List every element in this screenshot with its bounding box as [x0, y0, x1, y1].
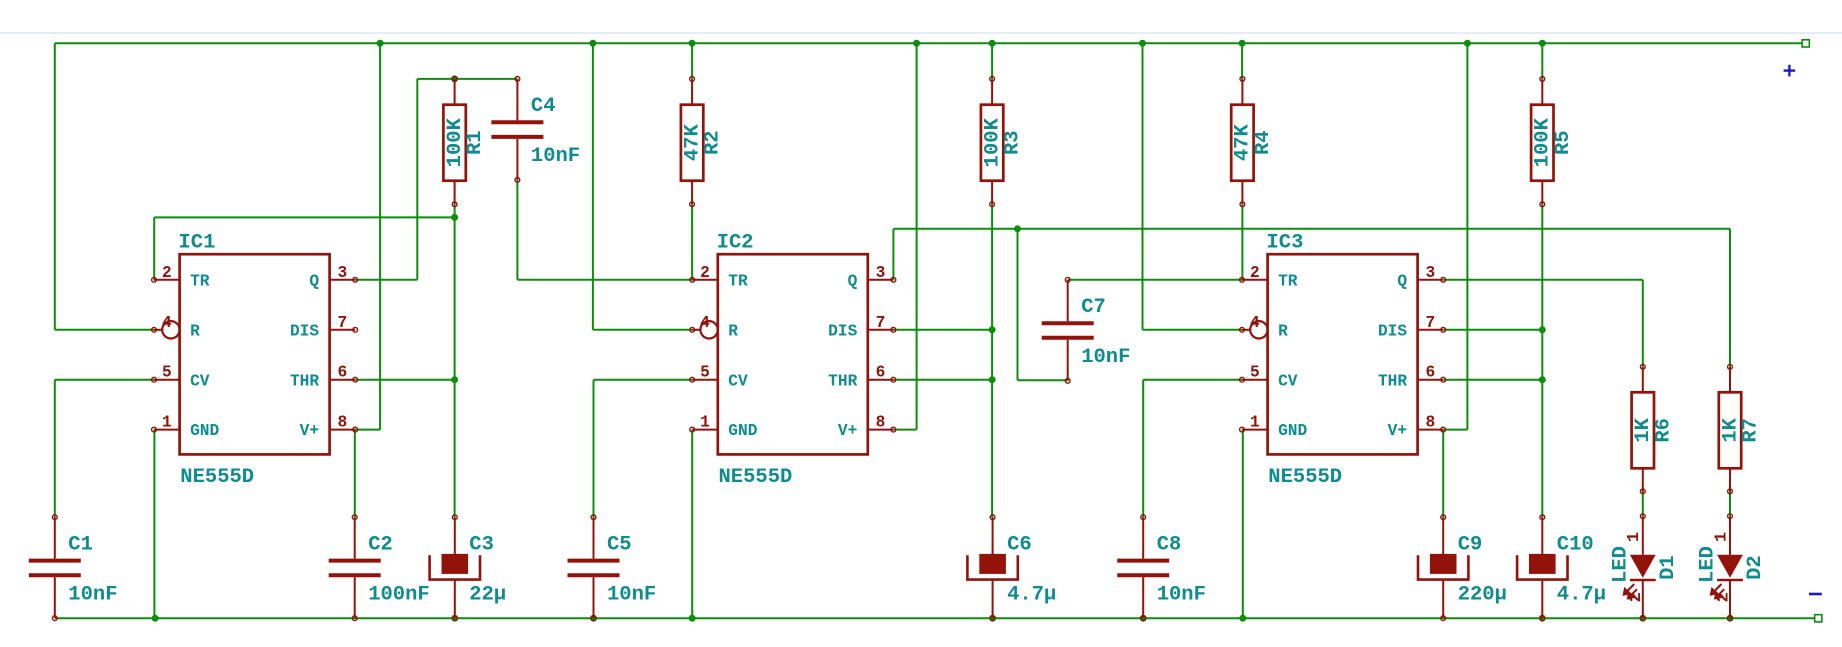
svg-text:3: 3 — [1425, 264, 1435, 282]
svg-text:GND: GND — [1278, 422, 1307, 440]
wire Q2 line down to R7 — [1729, 229, 1731, 367]
svg-text:C5: C5 — [607, 533, 632, 556]
svg-text:1: 1 — [1250, 414, 1260, 432]
capacitor C4 — [491, 79, 543, 180]
svg-text:2: 2 — [700, 264, 710, 282]
junction TR1 net — [451, 214, 458, 221]
svg-text:TR: TR — [728, 272, 748, 290]
junction GND bus / IC2 GND — [689, 615, 696, 622]
svg-text:8: 8 — [1425, 414, 1435, 432]
wire R2 bottom to IC2 TR — [691, 204, 693, 279]
junction DIS3 net — [1539, 326, 1546, 333]
svg-text:R2: R2 — [702, 130, 725, 155]
svg-text:IC3: IC3 — [1267, 232, 1304, 255]
svg-text:R1: R1 — [464, 130, 487, 155]
resistor R1 — [443, 79, 465, 204]
wire IC1 CV pin horizontal — [55, 379, 154, 381]
svg-text:Q: Q — [848, 272, 858, 290]
power label + — [1784, 65, 1796, 77]
capacitor C3 (electrolytic) — [430, 517, 480, 618]
svg-text:5: 5 — [162, 364, 172, 382]
svg-text:DIS: DIS — [1378, 322, 1407, 340]
wire IC2 CV to C5 vertical — [593, 380, 595, 518]
svg-text:6: 6 — [337, 364, 347, 382]
svg-text:100nF: 100nF — [368, 583, 430, 606]
wire V+ bus to IC2 R pullup vertical — [592, 43, 594, 330]
wire IC2 Q long horizontal to R7 — [893, 228, 1730, 230]
svg-text:7: 7 — [337, 314, 347, 332]
svg-text:DIS: DIS — [828, 322, 857, 340]
node GND bus end square — [1815, 615, 1822, 622]
faint page border line — [0, 32, 1842, 34]
wire IC2 DIS to R3 — [893, 329, 992, 331]
svg-text:10nF: 10nF — [531, 145, 580, 168]
junction V+ bus / IC1 V+ — [377, 40, 384, 47]
junction THR1 net — [451, 376, 458, 383]
junction GND bus / IC1 GND — [152, 615, 159, 622]
wire IC1 Q right — [355, 279, 417, 281]
wire IC1 R pin horizontal — [55, 329, 154, 331]
resistor R7 — [1719, 367, 1741, 492]
svg-text:GND: GND — [190, 422, 219, 440]
svg-text:D1: D1 — [1657, 555, 1680, 580]
junction V+ bus / IC2 R pullup — [589, 40, 596, 47]
junction V+ bus / R4 — [1239, 40, 1246, 47]
svg-text:10nF: 10nF — [1081, 346, 1130, 369]
svg-text:10nF: 10nF — [607, 583, 656, 606]
svg-text:4: 4 — [1250, 314, 1260, 332]
svg-text:TR: TR — [1278, 272, 1298, 290]
wire V+ bus to IC1 R pullup vertical — [54, 43, 56, 330]
junction GND bus / C8 — [1140, 615, 1147, 622]
resistor R5 — [1531, 79, 1553, 204]
wire R5 bottom to C10 vertical — [1541, 204, 1543, 517]
svg-text:C9: C9 — [1458, 533, 1483, 556]
resistor R2 — [681, 79, 703, 204]
svg-text:DIS: DIS — [290, 322, 319, 340]
junction V+ bus / IC2 V+ — [913, 40, 920, 47]
svg-text:NE555D: NE555D — [719, 466, 793, 489]
svg-text:C7: C7 — [1081, 296, 1106, 319]
svg-text:R6: R6 — [1652, 418, 1675, 443]
wire IC1 GND to bus vertical — [153, 430, 155, 619]
capacitor C10 (electrolytic) — [1517, 517, 1567, 618]
svg-text:NE555D: NE555D — [1268, 466, 1342, 489]
svg-text:R3: R3 — [1002, 130, 1025, 155]
junction GND bus / C6 — [989, 615, 996, 622]
junction V+ bus / R5 — [1539, 40, 1546, 47]
svg-text:C1: C1 — [68, 533, 93, 556]
wire IC2 THR to R3 — [893, 379, 992, 381]
wire IC1 THR to R1 node — [355, 379, 454, 381]
pin end markers (open circles) — [52, 77, 1732, 621]
wire bus to R3 top — [991, 43, 993, 79]
svg-text:C3: C3 — [469, 533, 494, 556]
junction DIS2 net — [989, 326, 996, 333]
resistor R4 — [1231, 79, 1253, 204]
svg-text:1: 1 — [162, 414, 172, 432]
LED D2 — [1711, 516, 1743, 618]
wire R7 to D2 link — [1729, 491, 1731, 516]
svg-text:THR: THR — [1378, 372, 1407, 390]
svg-text:Q: Q — [309, 272, 319, 290]
svg-text:IC2: IC2 — [717, 232, 754, 255]
svg-text:Q: Q — [1397, 272, 1407, 290]
wire R4 bottom to IC3 TR — [1241, 204, 1243, 279]
svg-text:10nF: 10nF — [1157, 583, 1206, 606]
wire to C7 bottom horizontal — [1018, 379, 1068, 381]
junction V+ bus / IC3 V+ — [1464, 40, 1471, 47]
svg-text:4.7µ: 4.7µ — [1007, 583, 1056, 606]
wire Q2 node to C7 vertical — [1017, 229, 1019, 380]
wire GND bottom bus — [55, 617, 1815, 619]
wire IC1 Q up — [416, 79, 418, 280]
svg-text:C10: C10 — [1557, 533, 1594, 556]
wire IC1 TR vertical — [153, 217, 155, 279]
junction THR3 net — [1539, 376, 1546, 383]
wire bus to R5 top — [1541, 43, 1543, 79]
wire IC2 V+ vertical to bus — [916, 43, 918, 429]
wire IC3 GND to bus vertical — [1242, 430, 1244, 619]
junction Q2 net to C7 — [1014, 225, 1021, 232]
svg-text:R: R — [728, 322, 738, 340]
svg-text:2: 2 — [1714, 592, 1733, 602]
power label - — [1809, 593, 1822, 596]
junction V+ bus / IC3 R pullup — [1139, 40, 1146, 47]
svg-text:R5: R5 — [1552, 130, 1575, 155]
wire IC3 CV pin horizontal — [1143, 379, 1242, 381]
svg-text:6: 6 — [1425, 364, 1435, 382]
svg-text:D2: D2 — [1744, 555, 1767, 580]
LED D1 — [1624, 516, 1656, 618]
svg-text:C4: C4 — [531, 95, 556, 118]
capacitor C5 — [568, 517, 620, 618]
wire IC2 R pin horizontal — [593, 329, 692, 331]
svg-text:4.7µ: 4.7µ — [1557, 583, 1606, 606]
junction GND bus / D1 — [1639, 615, 1646, 622]
junction GND bus / C3 — [451, 615, 458, 622]
wire IC1 V+ to C2 vertical — [354, 430, 356, 518]
capacitor C9 (electrolytic) — [1418, 517, 1468, 618]
svg-text:NE555D: NE555D — [180, 466, 254, 489]
wire bus to R4 top — [1241, 43, 1243, 79]
junction V+ bus / R2 — [689, 40, 696, 47]
wire IC3 V+ to C9 vertical — [1442, 430, 1444, 518]
capacitor C8 — [1117, 517, 1169, 618]
svg-text:C8: C8 — [1157, 533, 1182, 556]
svg-text:1: 1 — [1712, 532, 1731, 542]
svg-text:2: 2 — [1250, 264, 1260, 282]
svg-text:3: 3 — [876, 264, 886, 282]
svg-text:8: 8 — [876, 414, 886, 432]
svg-text:TR: TR — [190, 272, 210, 290]
wire V+ bus to IC3 R pullup vertical — [1142, 43, 1144, 330]
svg-text:6: 6 — [876, 364, 886, 382]
wire IC2 Q up — [892, 229, 894, 280]
svg-text:GND: GND — [728, 422, 757, 440]
svg-text:8: 8 — [337, 414, 347, 432]
wire IC3 THR to R5 — [1443, 379, 1542, 381]
junction V+ bus / R3 — [989, 40, 996, 47]
wire C4 bottom vertical — [516, 180, 518, 280]
svg-text:V+: V+ — [838, 422, 857, 440]
svg-text:7: 7 — [1425, 314, 1435, 332]
wire C7 top to IC3 TR horizontal — [1068, 279, 1242, 281]
wire V+ top bus — [55, 42, 1802, 44]
svg-text:R4: R4 — [1252, 130, 1275, 155]
capacitor C1 — [29, 517, 81, 618]
svg-text:4: 4 — [700, 314, 710, 332]
svg-text:R7: R7 — [1740, 418, 1763, 443]
wire IC3 DIS to R5 — [1443, 329, 1542, 331]
resistor R3 — [981, 79, 1003, 204]
capacitor C6 (electrolytic) — [967, 517, 1017, 618]
svg-text:3: 3 — [337, 264, 347, 282]
svg-text:4: 4 — [162, 314, 172, 332]
svg-text:THR: THR — [828, 372, 857, 390]
op-amp-style timer IC IC1 NE555D — [154, 254, 355, 454]
wire IC1 TR horizontal to R1 node — [154, 216, 454, 218]
wire IC2 V+ stub — [893, 429, 916, 431]
svg-text:C2: C2 — [368, 533, 393, 556]
wire IC1 CV to C1 vertical — [54, 380, 56, 518]
svg-text:2: 2 — [162, 264, 172, 282]
svg-text:C6: C6 — [1007, 533, 1032, 556]
svg-text:LED: LED — [1610, 546, 1633, 583]
svg-text:1: 1 — [1625, 532, 1644, 542]
svg-text:5: 5 — [700, 364, 710, 382]
junction GND bus / D2 — [1727, 615, 1734, 622]
capacitor C7 — [1042, 280, 1094, 381]
wire IC1 V+ vertical to bus — [379, 43, 381, 429]
junction GND bus / C10 — [1539, 615, 1546, 622]
wire IC3 CV to C8 vertical — [1142, 380, 1144, 518]
wire IC2 CV pin horizontal — [594, 379, 693, 381]
wire R1 bottom to C3 vertical — [454, 204, 456, 517]
svg-text:R: R — [1278, 322, 1288, 340]
wire IC2 GND to bus vertical — [691, 430, 693, 619]
svg-text:V+: V+ — [300, 422, 319, 440]
svg-text:R: R — [190, 322, 200, 340]
wire IC1 Q top horizontal to C4 — [417, 78, 517, 80]
node V+ bus end square — [1802, 40, 1809, 47]
svg-text:IC1: IC1 — [179, 232, 216, 255]
svg-text:220µ: 220µ — [1458, 583, 1507, 606]
resistor R6 — [1632, 367, 1654, 492]
svg-text:LED: LED — [1697, 546, 1720, 583]
wire IC3 V+ vertical to bus — [1466, 43, 1468, 429]
svg-text:10nF: 10nF — [68, 583, 117, 606]
op-amp-style timer IC IC3 NE555D — [1242, 254, 1443, 454]
wire bus to R2 top — [691, 43, 693, 79]
wire IC1 V+ stub — [355, 429, 380, 431]
junction GND bus / IC3 GND — [1239, 615, 1246, 622]
wire R6 to D1 link — [1642, 491, 1644, 516]
junction THR2 net — [989, 376, 996, 383]
junction GND bus / C5 — [590, 615, 597, 622]
svg-text:5: 5 — [1250, 364, 1260, 382]
svg-text:7: 7 — [876, 314, 886, 332]
svg-text:22µ: 22µ — [469, 583, 506, 606]
svg-text:V+: V+ — [1388, 422, 1407, 440]
wire IC3 R pin horizontal — [1143, 329, 1243, 331]
wire R3 bottom to C6 vertical — [991, 204, 993, 517]
op-amp-style timer IC IC2 NE555D — [692, 254, 893, 454]
junction R1 top / Q1 net — [451, 75, 458, 82]
capacitor C2 — [329, 517, 381, 618]
wire IC3 V+ stub — [1443, 429, 1467, 431]
svg-text:2: 2 — [1627, 592, 1646, 602]
svg-text:THR: THR — [290, 372, 319, 390]
svg-text:CV: CV — [1278, 372, 1298, 390]
wire IC3 Q right — [1443, 279, 1642, 281]
wire C4 to IC2 TR horizontal — [517, 279, 692, 281]
wire IC3 Q down to R6 — [1642, 280, 1644, 367]
svg-text:CV: CV — [728, 372, 748, 390]
svg-text:CV: CV — [190, 372, 210, 390]
svg-text:1: 1 — [700, 414, 710, 432]
